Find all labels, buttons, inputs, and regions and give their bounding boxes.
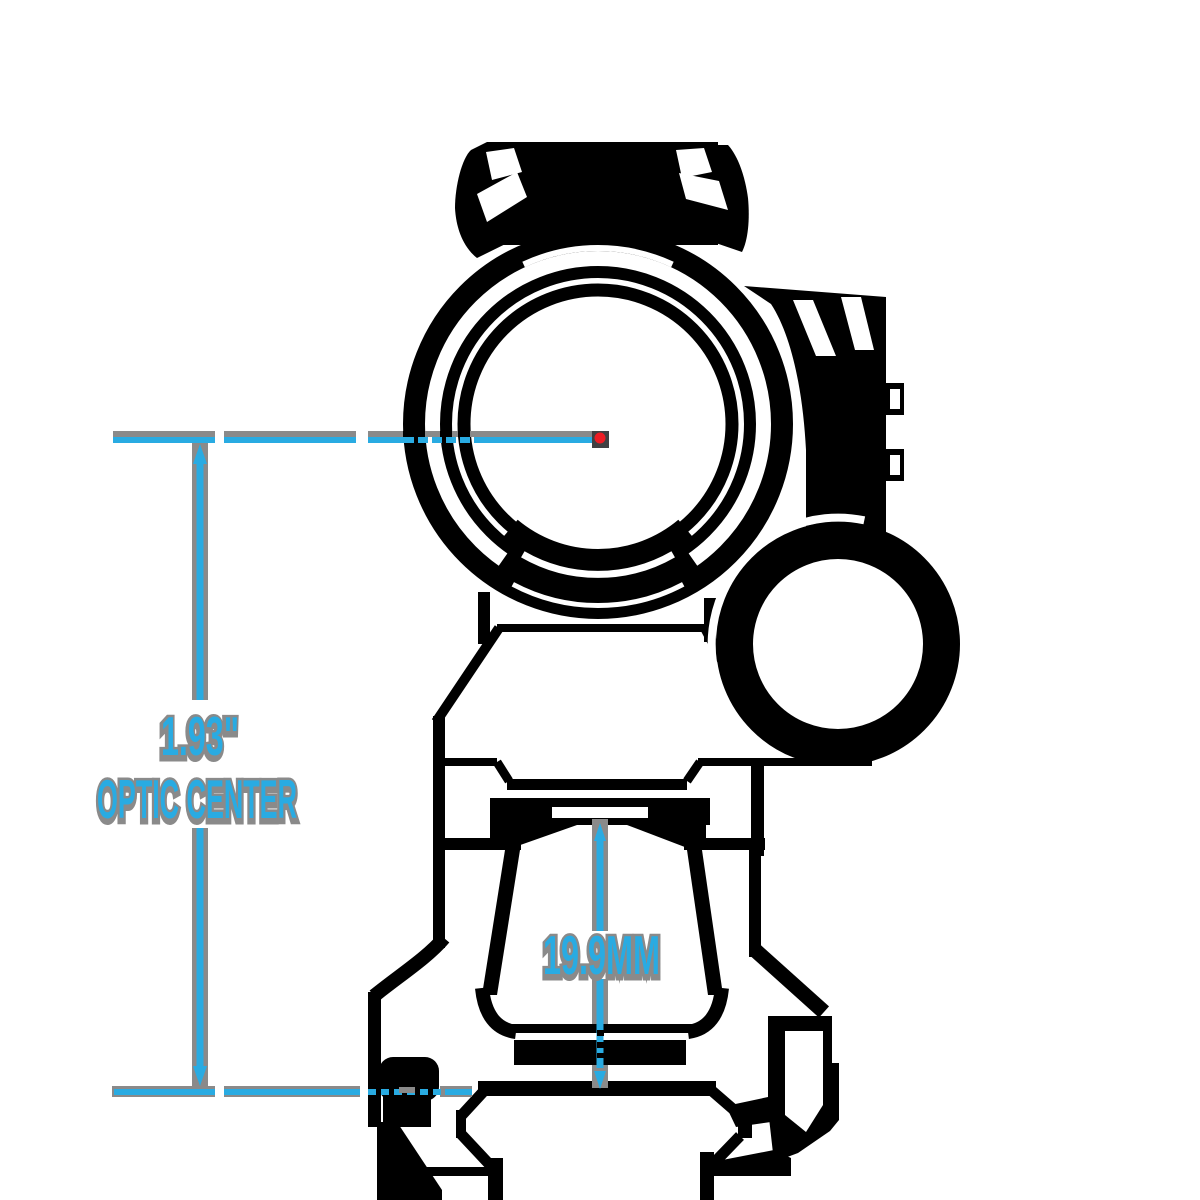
top ring thinning arc	[524, 248, 673, 264]
saddle	[433, 758, 872, 790]
left clamp bolt blob	[379, 1057, 439, 1101]
left leg top column	[490, 798, 512, 850]
bezel ring	[464, 290, 732, 558]
middle ring	[446, 272, 750, 576]
right clamp tail diagonal	[726, 1097, 785, 1127]
left clamp outer wall	[368, 992, 381, 1127]
rail right lip column	[738, 1112, 752, 1138]
right ear	[672, 145, 749, 252]
left clamp jaw	[377, 1122, 442, 1200]
bottom thick arcs	[503, 560, 694, 590]
ring2 bottom inner separation	[523, 554, 673, 574]
wedge left	[509, 825, 577, 849]
svg-text:19.9MM: 19.9MM	[543, 924, 660, 986]
white slot in band2	[552, 807, 648, 818]
left ear	[455, 142, 530, 258]
left leg	[482, 850, 520, 995]
svg-text:1.93": 1.93"	[161, 705, 239, 767]
right leg	[687, 850, 723, 995]
cyan top line	[113, 437, 592, 443]
lever loop hole	[785, 1031, 823, 1132]
right clamp inner wall	[749, 847, 761, 957]
black over gray where rings cross top line	[403, 431, 470, 437]
rail bottom band left	[425, 1167, 490, 1176]
rail left lip lower	[461, 1134, 490, 1165]
left outer wall	[433, 716, 445, 948]
left clamp outer curve	[374, 938, 444, 996]
cyan vertical main	[193, 444, 207, 464]
right clamp tail band	[712, 1150, 791, 1176]
rail left lip upper	[461, 1091, 484, 1116]
right leg top column	[686, 798, 706, 850]
right clamp lever loop	[768, 1016, 839, 1162]
rail left vertical	[488, 1158, 503, 1200]
turret right tabs	[886, 383, 904, 481]
right clamp diagonal	[755, 950, 824, 1012]
cyan bottom line	[114, 1089, 360, 1095]
band2 block	[490, 798, 710, 825]
outer ring	[414, 240, 782, 608]
right shoulder line	[705, 628, 752, 717]
rail top band	[478, 1081, 716, 1096]
right turret block	[744, 286, 886, 532]
recess floor thin line	[502, 1024, 698, 1033]
knob halo	[712, 518, 865, 734]
gray shafts	[112, 431, 608, 1097]
left shoulder line	[436, 628, 499, 722]
chin line under circle	[497, 624, 707, 632]
text 1.93"	[160, 705, 239, 769]
right box wall	[751, 758, 764, 856]
rail right vertical	[700, 1152, 714, 1200]
neck side stubs	[478, 592, 490, 644]
recess floor thick band	[514, 1040, 686, 1065]
wedge right	[627, 825, 690, 849]
top band between ears	[487, 142, 718, 245]
shelf right	[684, 838, 765, 850]
rail left lip column	[456, 1110, 466, 1138]
rail right lip upper	[711, 1090, 741, 1116]
text 19.9MM	[543, 924, 660, 988]
rail right lip lower	[711, 1136, 740, 1166]
shelf left	[433, 838, 521, 850]
center square + red dot	[592, 431, 609, 448]
text OPTIC CENTER	[97, 768, 297, 832]
svg-text:OPTIC CENTER: OPTIC CENTER	[97, 768, 297, 830]
cyan 19.9 vertical	[594, 823, 606, 841]
knob ring	[735, 541, 942, 748]
